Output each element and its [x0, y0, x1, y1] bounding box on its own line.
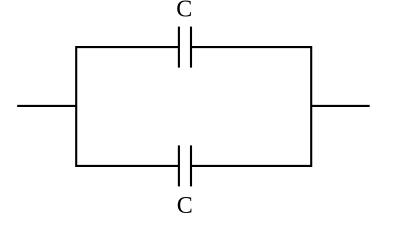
svg-text:C: C — [176, 0, 192, 22]
svg-text:C: C — [177, 193, 193, 219]
